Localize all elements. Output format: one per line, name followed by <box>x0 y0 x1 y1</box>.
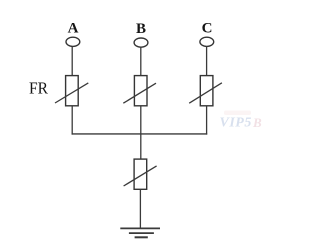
wire terminal B to FR2 <box>140 47 142 76</box>
watermark <box>220 111 263 131</box>
wire FR4 to ground <box>139 189 141 228</box>
svg-text:FR: FR <box>29 79 49 98</box>
varistor FR1 (phase A) <box>55 76 88 106</box>
varistor FR3 (phase C) <box>189 76 222 106</box>
wire FR1 to bus <box>71 106 73 135</box>
svg-text:B: B <box>136 21 146 37</box>
wire FR3 to bus <box>206 106 208 135</box>
varistor FR2 (phase B) <box>123 76 156 106</box>
varistor FR4 (common to ground) <box>124 159 157 189</box>
ground <box>120 228 160 237</box>
terminal C <box>200 37 214 46</box>
svg-text:B: B <box>252 115 262 130</box>
wire bus to FR4 <box>140 134 142 159</box>
wire FR2 to bus <box>140 106 142 134</box>
wire terminal A to FR1 <box>71 46 73 75</box>
terminal A <box>66 37 80 46</box>
terminal B <box>134 38 148 47</box>
bus (common node) <box>72 133 208 135</box>
svg-text:VIP5: VIP5 <box>220 116 252 131</box>
wire terminal C to FR3 <box>206 46 208 75</box>
svg-text:C: C <box>202 21 213 37</box>
svg-text:A: A <box>68 21 79 37</box>
